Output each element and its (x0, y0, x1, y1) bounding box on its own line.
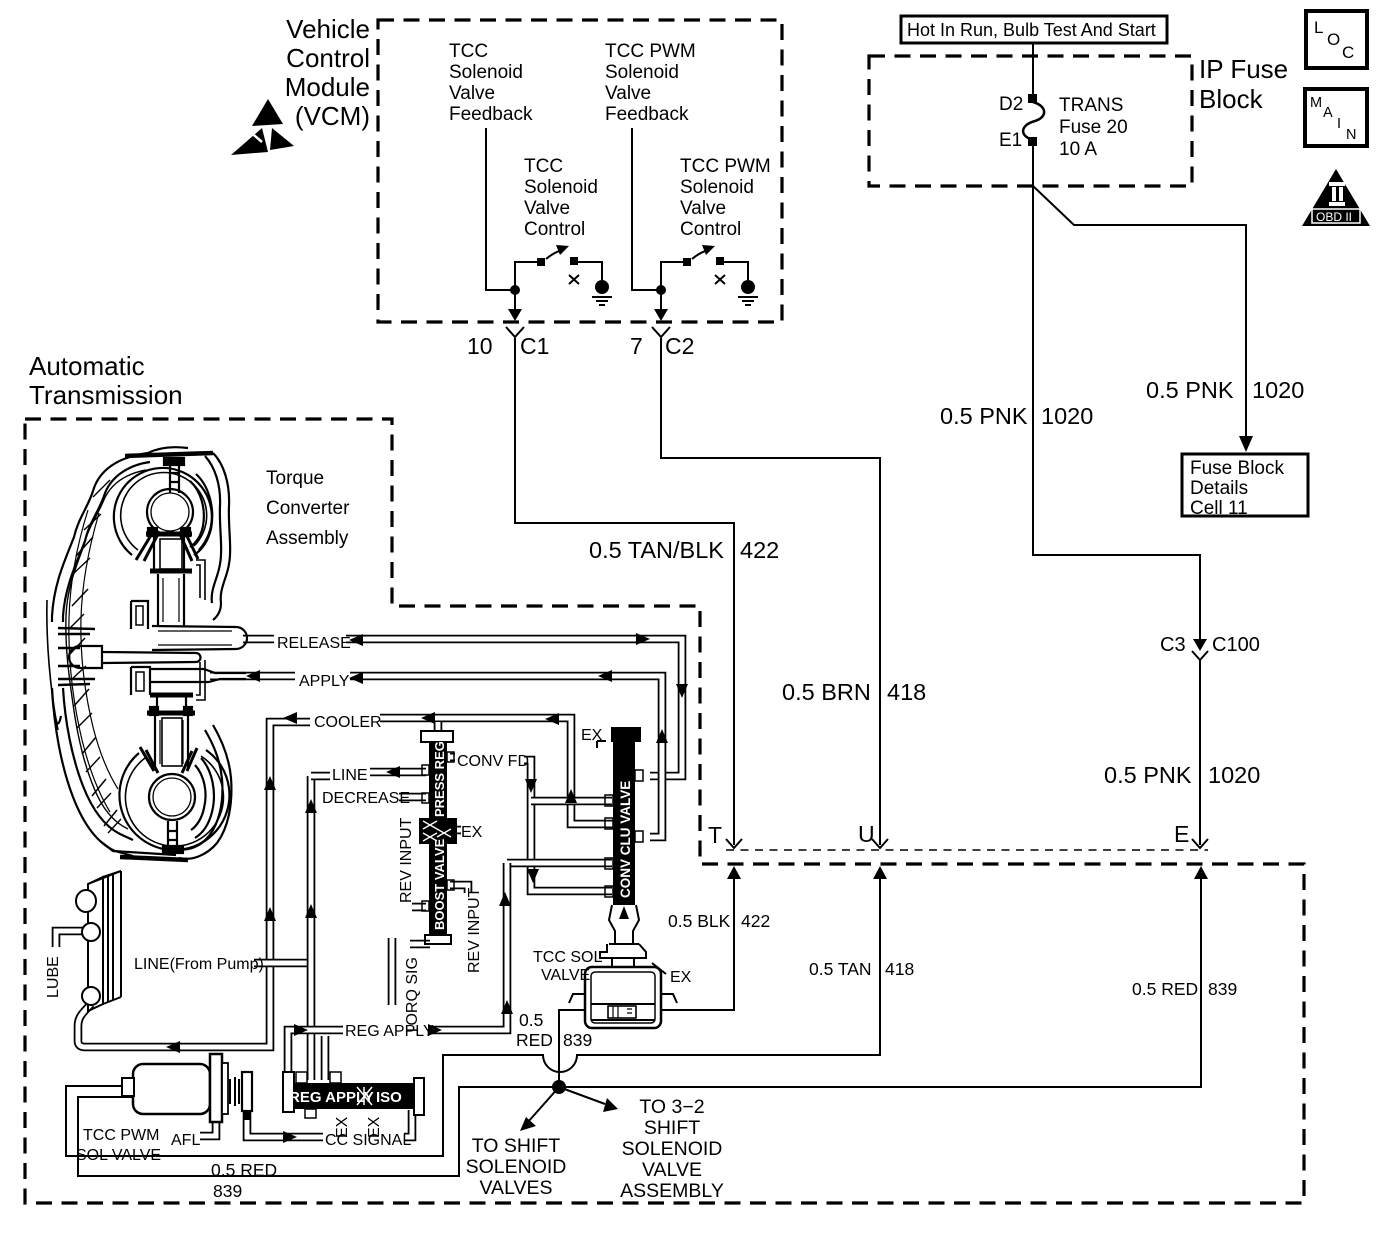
svg-text:0.5 PNK: 0.5 PNK (1104, 762, 1192, 788)
LINE (from pump) feed (254, 959, 311, 968)
nose seals (58, 648, 80, 666)
EX stub press reg (452, 826, 461, 835)
flow arrow REG APPLY riser upper (499, 892, 511, 906)
svg-text:EX: EX (581, 727, 603, 744)
svg-text:DECREASE: DECREASE (322, 790, 410, 807)
switch 2 ground wire (724, 262, 748, 280)
svg-text:EX: EX (334, 1116, 351, 1138)
flow arrow RELEASE riser (676, 684, 688, 698)
svg-text:T: T (708, 822, 722, 848)
svg-text:ISO: ISO (376, 1089, 402, 1106)
svg-text:TCC PWM: TCC PWM (605, 41, 696, 62)
AFL line (200, 1120, 216, 1136)
svg-text:EX: EX (366, 1116, 383, 1138)
arrow to shift solenoid valves (528, 1087, 559, 1122)
TCC PWM Solenoid Valve Feedback label (605, 41, 696, 125)
center shaft (102, 652, 196, 663)
svg-text:Assembly: Assembly (266, 528, 349, 549)
ESD symbol (231, 99, 294, 155)
svg-text:Feedback: Feedback (605, 104, 689, 125)
TCC sol valve red wire (559, 1010, 585, 1087)
branch conv fd to valve mid port (531, 797, 612, 806)
switch 1 down arrow (514, 290, 516, 312)
hub fill details (160, 539, 182, 569)
svg-text:C1: C1 (520, 333, 549, 359)
VCM dashed box (378, 20, 782, 322)
left tabs upper (131, 601, 148, 629)
top torus outer ring (114, 468, 212, 555)
svg-text:CONV FD: CONV FD (457, 753, 529, 770)
left tabs lower (131, 667, 150, 695)
bottom torus outer ring (119, 750, 229, 850)
switch 1 right contact (570, 257, 578, 265)
switch 2 junction dot (656, 285, 666, 295)
svg-text:TRANS: TRANS (1059, 95, 1123, 116)
svg-text:N: N (1346, 127, 1356, 143)
flow arrow CC SIGNAL (283, 1131, 297, 1143)
svg-text:0.5 PNK: 0.5 PNK (1146, 377, 1234, 403)
flow arrow REG APPLY label left (294, 1024, 308, 1036)
bottom torus inner circle (149, 774, 195, 820)
svg-text:Valve: Valve (680, 198, 726, 219)
junction dot (552, 1080, 566, 1094)
REV INPUT 1 stub (412, 903, 426, 912)
CC SIGNAL line from pwm solenoid (247, 1110, 323, 1137)
pilot nose (80, 646, 102, 668)
DECREASE stub (399, 793, 426, 802)
TCC Solenoid Valve Control label (524, 156, 598, 240)
wire 0.5 BRN 418 from C2 to U (661, 338, 880, 845)
svg-text:(VCM): (VCM) (295, 101, 370, 131)
flow arrow REG APPLY label right (428, 1024, 442, 1036)
conv clu valve assembly (597, 727, 643, 944)
svg-text:Control: Control (286, 43, 370, 73)
svg-text:C100: C100 (1212, 634, 1260, 656)
svg-text:LINE: LINE (332, 767, 368, 784)
svg-text:Module: Module (285, 72, 370, 102)
switch 2 down arrow (660, 290, 662, 312)
svg-text:BOOST VALVE: BOOST VALVE (432, 838, 447, 930)
switch 2 x mark (715, 275, 725, 284)
flow arrow CONV FD upper (525, 779, 537, 793)
flow arrow LINE stub (386, 766, 400, 778)
E wire arrow up 0.5 RED 839 (1194, 866, 1208, 879)
svg-text:Block: Block (1199, 84, 1264, 114)
connector C2 chevron (652, 327, 670, 337)
fuse symbol (1028, 94, 1037, 103)
apply tube (150, 669, 209, 682)
flow arrow COOLER mid (421, 712, 435, 724)
svg-text:Fuse Block: Fuse Block (1190, 458, 1284, 479)
flow arrow APPLY right (598, 670, 612, 682)
T wire arrow up 0.5 BLK 422 (727, 866, 741, 879)
svg-text:E: E (1174, 821, 1189, 847)
svg-text:REG APPLY: REG APPLY (289, 1089, 374, 1106)
flow arrow COOLER left (283, 712, 297, 724)
top hub column (158, 574, 184, 626)
svg-text:REV INPUT: REV INPUT (466, 887, 483, 973)
boost valve / press reg assembly (419, 731, 457, 944)
IP fuse block dashed box (869, 56, 1192, 186)
flow arrow APPLY riser (656, 729, 668, 743)
svg-text:VALVE: VALVE (642, 1159, 702, 1181)
switch 1 left contact (537, 258, 545, 266)
Hot In Run box (901, 16, 1167, 43)
svg-text:TCC: TCC (524, 156, 563, 177)
lower hub bar (150, 693, 193, 698)
svg-text:EX: EX (670, 969, 692, 986)
bean extra contours (66, 470, 146, 829)
outer shell left bean upper (52, 453, 148, 622)
svg-text:L: L (1314, 18, 1323, 37)
svg-text:Details: Details (1190, 478, 1248, 499)
LUBE pipe (56, 931, 84, 947)
svg-text:Valve: Valve (449, 83, 495, 104)
shell top cap (125, 453, 213, 456)
flow arrow RELEASE right (636, 633, 650, 645)
small black joints (148, 528, 157, 536)
svg-text:TCC: TCC (449, 41, 488, 62)
wire 0.5 TAN/BLK 422 from C1 to T (515, 338, 734, 845)
svg-text:COOLER: COOLER (314, 714, 382, 731)
svg-text:Torque: Torque (266, 468, 324, 489)
svg-text:C3: C3 (1160, 634, 1186, 656)
transmission dashed outline (25, 419, 1304, 1203)
case connector thin dashed line (726, 849, 1208, 851)
svg-text:RELEASE: RELEASE (277, 635, 351, 652)
svg-text:Solenoid: Solenoid (605, 62, 679, 83)
flow arrow CONV FD lower (527, 869, 539, 883)
svg-text:Control: Control (680, 219, 741, 240)
switch 2 arm (692, 250, 709, 259)
svg-text:Converter: Converter (266, 498, 350, 519)
REV INPUT 2 stub (450, 885, 468, 893)
svg-text:LUBE: LUBE (45, 956, 62, 998)
LOC icon (1306, 11, 1367, 68)
switch 1 control stem (515, 262, 541, 290)
svg-text:SOLENOID: SOLENOID (622, 1138, 723, 1160)
TCC solenoid valve drawing (569, 944, 677, 1028)
flow arrow cooler return lower (264, 907, 276, 921)
release tube (152, 626, 236, 650)
svg-text:Cell 11: Cell 11 (1190, 498, 1248, 519)
svg-text:0.5 TAN/BLK: 0.5 TAN/BLK (589, 537, 724, 563)
svg-text:EX: EX (461, 824, 483, 841)
svg-text:Solenoid: Solenoid (524, 177, 598, 198)
svg-text:E1: E1 (999, 130, 1022, 151)
svg-text:0.5 BRN: 0.5 BRN (782, 679, 871, 705)
svg-text:0.5 RED: 0.5 RED (211, 1160, 277, 1180)
svg-text:TCC SOL: TCC SOL (533, 949, 602, 966)
flow arrow line feed upper (305, 799, 317, 813)
MAIN icon (1305, 89, 1367, 146)
svg-text:Automatic: Automatic (29, 351, 145, 381)
switch 1 feedback wire (486, 128, 515, 290)
svg-text:Solenoid: Solenoid (449, 62, 523, 83)
TCC Solenoid Valve Feedback label (449, 41, 533, 125)
flow arrow cooler return to radiator (166, 1041, 180, 1053)
flow arrow cooler return upper (264, 776, 276, 790)
cover right side lower (179, 725, 231, 859)
bottom torus lug ladder (168, 821, 177, 849)
TCC PWM solenoid valve drawing (122, 1054, 252, 1122)
svg-text:7: 7 (630, 333, 643, 359)
svg-text:TCC PWM: TCC PWM (680, 156, 771, 177)
radiator cooler (76, 871, 121, 1011)
svg-text:D2: D2 (999, 94, 1023, 115)
flow arrow COOLER right (545, 713, 559, 725)
svg-text:TORQ SIG: TORQ SIG (404, 957, 421, 1035)
outer shell left bean lower (52, 688, 133, 856)
svg-text:839: 839 (1208, 979, 1237, 999)
svg-text:422: 422 (741, 911, 770, 931)
svg-text:A: A (1323, 105, 1333, 121)
svg-text:0.5 BLK: 0.5 BLK (668, 911, 731, 931)
switch 2 feedback wire (632, 128, 661, 290)
TCC PWM Solenoid Valve Control label (680, 156, 771, 240)
TO 3-2 SHIFT SOLENOID VALVE ASSEMBLY (620, 1096, 724, 1202)
wire branch to fuse block details (1033, 186, 1246, 437)
bean hatch curves (69, 510, 110, 812)
wire fuse down (1033, 146, 1200, 640)
svg-text:0.5 RED: 0.5 RED (1132, 979, 1198, 999)
flow arrow APPLY mid (349, 672, 363, 684)
svg-text:CONV CLU VALVE: CONV CLU VALVE (618, 781, 633, 898)
connector C1 chevron (506, 327, 524, 337)
svg-text:1020: 1020 (1252, 377, 1304, 403)
svg-text:TO SHIFT: TO SHIFT (472, 1135, 561, 1157)
svg-text:Valve: Valve (605, 83, 651, 104)
top torus C arcs (190, 481, 204, 547)
svg-text:OBD II: OBD II (1316, 210, 1352, 224)
top hub bar (146, 532, 192, 537)
svg-text:Control: Control (524, 219, 585, 240)
bottom torus C arcs (191, 765, 206, 830)
REG APPLY ISO valve (283, 1072, 424, 1118)
svg-text:SHIFT: SHIFT (644, 1117, 700, 1139)
REG APPLY label left line to iso valve (288, 1030, 343, 1078)
svg-text:I: I (1337, 116, 1341, 132)
top torus inner ring (121, 473, 207, 550)
COOLER line from radiator (78, 722, 310, 1047)
top torus inner circle (147, 489, 193, 535)
svg-text:PRESS REG: PRESS REG (432, 741, 447, 817)
top torus lug ladder (170, 465, 179, 493)
svg-text:AFL: AFL (171, 1132, 200, 1149)
switch 1 junction dot (510, 285, 520, 295)
fuse block details box (1182, 454, 1308, 516)
bottom hub spokes (140, 747, 197, 773)
press reg top stem to cooler (434, 722, 443, 732)
U wire arrow up 0.5 TAN 418 (873, 866, 887, 879)
svg-text:Valve: Valve (524, 198, 570, 219)
switch 2 control stem (661, 262, 687, 290)
svg-text:SOL VALVE: SOL VALVE (76, 1147, 161, 1164)
svg-text:1020: 1020 (1208, 762, 1260, 788)
bottom torus inner ring (125, 756, 223, 846)
connector C3 C100 (1193, 639, 1207, 651)
svg-text:TO 3−2: TO 3−2 (639, 1096, 704, 1118)
switch 2 ground (741, 280, 755, 294)
svg-text:REV INPUT: REV INPUT (398, 817, 415, 903)
shell bottom cap (100, 841, 176, 855)
pump body steps (58, 628, 95, 685)
RELEASE line (243, 635, 274, 644)
svg-text:839: 839 (563, 1030, 592, 1050)
svg-text:VALVES: VALVES (480, 1177, 553, 1199)
stub down to iso valve top (321, 1036, 330, 1080)
svg-text:Solenoid: Solenoid (680, 177, 754, 198)
lower hub column (155, 716, 188, 768)
switch 2 right contact (716, 257, 724, 265)
svg-text:RED: RED (516, 1030, 553, 1050)
switch 1 ground wire (578, 262, 602, 280)
arrow to 3-2 shift solenoid (559, 1087, 605, 1104)
flow arrow APPLY near converter (246, 670, 260, 682)
OBD II icon (1302, 169, 1370, 226)
svg-text:0.5 PNK: 0.5 PNK (940, 403, 1028, 429)
svg-text:U: U (858, 821, 875, 847)
flow arrow cooler drop (565, 789, 577, 803)
svg-text:418: 418 (885, 959, 914, 979)
VCM label text (285, 14, 370, 131)
svg-text:839: 839 (213, 1181, 242, 1201)
svg-text:0.5: 0.5 (519, 1010, 543, 1030)
REG APPLY riser to conv clu valve (507, 859, 612, 868)
svg-text:C2: C2 (665, 333, 694, 359)
flow arrow RELEASE mid (349, 634, 363, 646)
svg-text:Fuse 20: Fuse 20 (1059, 117, 1128, 138)
svg-text:0.5 TAN: 0.5 TAN (809, 959, 872, 979)
CONV FD link (450, 753, 455, 762)
svg-text:Hot In Run, Bulb Test And Star: Hot In Run, Bulb Test And Start (907, 20, 1156, 40)
svg-text:418: 418 (887, 679, 926, 705)
svg-text:O: O (1327, 30, 1340, 49)
svg-text:APPLY: APPLY (299, 673, 350, 690)
svg-text:SOLENOID: SOLENOID (466, 1156, 567, 1178)
switch 1 x mark (569, 275, 579, 284)
svg-text:1020: 1020 (1041, 403, 1093, 429)
switch 2 left contact (683, 258, 691, 266)
flow arrow REG APPLY riser lower (501, 1000, 513, 1014)
switch 1 ground (595, 280, 609, 294)
TORQ SIG stub (410, 940, 430, 949)
boost valve bottom left drop (388, 938, 397, 1005)
svg-text:10 A: 10 A (1059, 139, 1097, 160)
APPLY line (210, 672, 295, 681)
COOLER line right of label (380, 718, 630, 824)
switch 1 arm (546, 250, 563, 259)
svg-text:TCC PWM: TCC PWM (83, 1127, 159, 1144)
svg-text:10: 10 (467, 333, 493, 359)
svg-text:VALVE: VALVE (541, 967, 590, 984)
svg-text:422: 422 (740, 537, 779, 563)
svg-text:LINE(From Pump): LINE(From Pump) (134, 956, 264, 973)
torque converter assembly label (266, 468, 350, 549)
wire hot to fuse (1032, 43, 1034, 96)
cover right side upper (213, 453, 230, 620)
flow arrow line feed lower (305, 904, 317, 918)
top hub spokes (136, 532, 198, 561)
svg-text:Transmission: Transmission (29, 380, 183, 410)
svg-text:ASSEMBLY: ASSEMBLY (620, 1180, 724, 1202)
TO SHIFT SOLENOID VALVES (466, 1135, 567, 1199)
svg-text:C: C (1342, 43, 1354, 62)
svg-text:Feedback: Feedback (449, 104, 533, 125)
LINE label stub to press reg (311, 772, 330, 781)
svg-text:Vehicle: Vehicle (286, 14, 370, 44)
svg-text:M: M (1310, 95, 1322, 111)
pin labels 10 C1 / 7 C2 (467, 333, 694, 359)
svg-text:IP Fuse: IP Fuse (1199, 54, 1288, 84)
